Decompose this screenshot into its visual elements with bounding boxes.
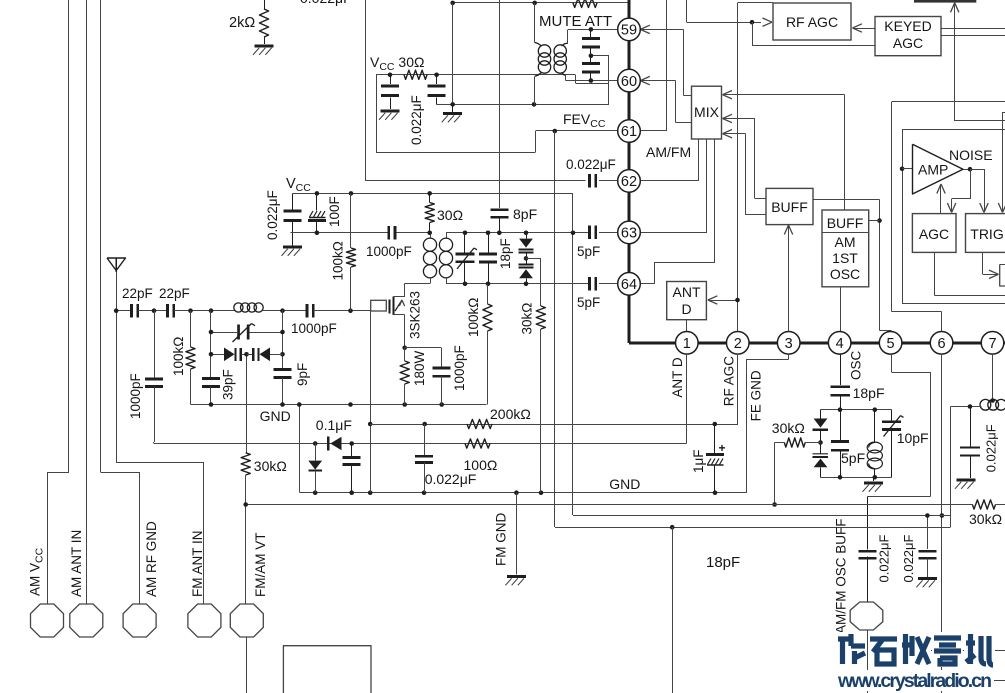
svg-text:3SK263: 3SK263 — [408, 291, 423, 339]
svg-text:5: 5 — [887, 336, 895, 352]
svg-text:0.022μF: 0.022μF — [425, 471, 477, 487]
svg-text:OSC: OSC — [830, 266, 860, 282]
svg-text:GND: GND — [609, 476, 640, 492]
svg-text:30kΩ: 30kΩ — [254, 458, 287, 474]
svg-text:RF AGC: RF AGC — [786, 14, 838, 30]
svg-text:1000pF: 1000pF — [452, 345, 467, 391]
svg-text:18pF: 18pF — [498, 238, 513, 269]
svg-text:RF AGC: RF AGC — [722, 356, 737, 407]
svg-text:59: 59 — [621, 23, 637, 39]
svg-text:1: 1 — [683, 336, 691, 352]
svg-text:AGC: AGC — [919, 226, 949, 242]
svg-text:AM/FM OSC BUFF: AM/FM OSC BUFF — [834, 519, 849, 635]
svg-text:63: 63 — [621, 226, 637, 242]
svg-text:0.022μF: 0.022μF — [265, 190, 280, 240]
svg-text:MIX: MIX — [694, 104, 720, 120]
svg-text:0.022μF: 0.022μF — [877, 534, 892, 582]
svg-text:AM RF GND: AM RF GND — [144, 521, 159, 597]
svg-text:FM GND: FM GND — [494, 513, 509, 566]
svg-text:6: 6 — [938, 336, 946, 352]
svg-text:18pF: 18pF — [853, 385, 885, 401]
svg-text:30Ω: 30Ω — [437, 207, 463, 223]
svg-text:39pF: 39pF — [221, 369, 236, 400]
svg-text:100kΩ: 100kΩ — [330, 241, 345, 280]
svg-text:62: 62 — [621, 174, 637, 190]
svg-text:0.022μF: 0.022μF — [409, 95, 424, 145]
svg-text:AMP: AMP — [918, 162, 948, 178]
svg-text:30kΩ: 30kΩ — [520, 303, 535, 335]
svg-text:1μF: 1μF — [691, 449, 706, 473]
svg-text:1000pF: 1000pF — [291, 321, 337, 336]
svg-text:ANT: ANT — [673, 284, 701, 300]
svg-text:0.022μF: 0.022μF — [566, 157, 616, 172]
svg-text:9pF: 9pF — [295, 363, 310, 386]
svg-text:BUFF: BUFF — [771, 199, 808, 215]
svg-text:FM ANT IN: FM ANT IN — [190, 530, 205, 597]
svg-text:www.crystalradio.cn: www.crystalradio.cn — [837, 670, 992, 692]
svg-text:60: 60 — [621, 74, 637, 90]
svg-text:FM/AM VT: FM/AM VT — [253, 533, 268, 598]
svg-text:KEYED: KEYED — [884, 18, 931, 34]
svg-text:ANT D: ANT D — [670, 357, 685, 398]
svg-text:0.022μF: 0.022μF — [901, 534, 916, 582]
svg-text:0.1μF: 0.1μF — [316, 417, 352, 433]
svg-text:64: 64 — [621, 277, 637, 293]
svg-text:AGC: AGC — [893, 35, 923, 51]
svg-text:5pF: 5pF — [577, 295, 600, 310]
svg-text:BUFF: BUFF — [827, 215, 864, 231]
svg-text:1ST: 1ST — [832, 250, 858, 266]
svg-text:4: 4 — [836, 336, 844, 352]
svg-text:200kΩ: 200kΩ — [490, 406, 531, 422]
svg-text:18pF: 18pF — [706, 554, 740, 571]
svg-text:100kΩ: 100kΩ — [466, 298, 481, 337]
svg-text:30kΩ: 30kΩ — [969, 511, 1002, 527]
svg-text:30kΩ: 30kΩ — [772, 420, 805, 436]
svg-text:22pF: 22pF — [122, 286, 153, 301]
svg-text:2kΩ: 2kΩ — [229, 15, 255, 31]
svg-text:0.022μF: 0.022μF — [984, 424, 999, 472]
svg-text:0.022μF: 0.022μF — [300, 0, 352, 6]
svg-text:AM: AM — [835, 234, 856, 250]
svg-text:10pF: 10pF — [897, 430, 929, 446]
svg-text:22pF: 22pF — [159, 286, 190, 301]
svg-text:1000pF: 1000pF — [128, 373, 143, 419]
svg-text:D: D — [681, 301, 691, 317]
svg-text:AM ANT IN: AM ANT IN — [69, 530, 84, 597]
svg-text:61: 61 — [621, 124, 637, 140]
svg-text:MUTE ATT: MUTE ATT — [539, 13, 612, 30]
svg-text:NOISE: NOISE — [949, 147, 993, 163]
svg-text:VCC 30Ω: VCC 30Ω — [370, 54, 424, 73]
svg-text:+: + — [719, 441, 726, 455]
svg-text:FE GND: FE GND — [748, 370, 763, 421]
svg-text:TRIG: TRIG — [970, 226, 1003, 242]
svg-text:5pF: 5pF — [577, 244, 600, 259]
svg-text:GND: GND — [260, 408, 291, 424]
svg-text:100kΩ: 100kΩ — [171, 337, 186, 376]
svg-text:AM/FM: AM/FM — [646, 144, 691, 160]
svg-text:100F: 100F — [327, 196, 342, 227]
svg-text:7: 7 — [988, 336, 996, 352]
svg-text:OSC: OSC — [848, 350, 863, 380]
svg-text:3: 3 — [785, 336, 793, 352]
svg-text:8pF: 8pF — [513, 206, 537, 222]
svg-text:2: 2 — [734, 336, 742, 352]
svg-text:5pF: 5pF — [841, 450, 865, 466]
svg-text:1000pF: 1000pF — [366, 244, 412, 259]
svg-text:180W: 180W — [412, 350, 427, 386]
